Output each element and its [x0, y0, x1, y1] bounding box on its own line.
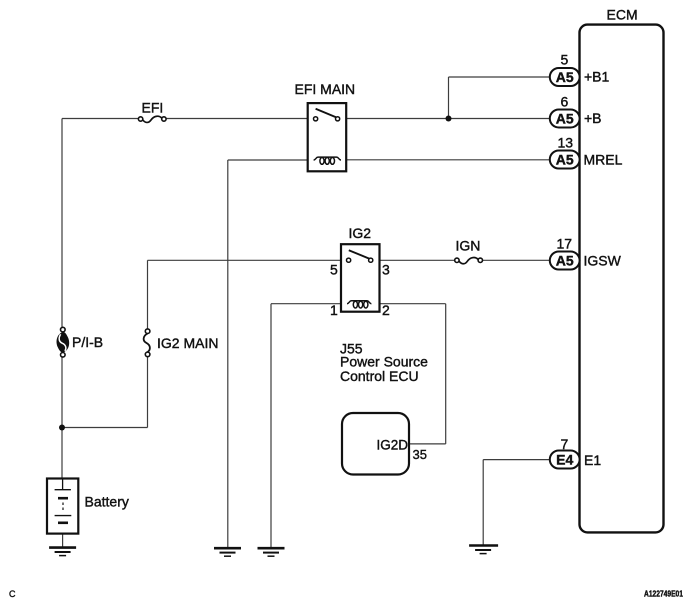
svg-text:ECM: ECM: [607, 7, 638, 23]
wire IG2 relay pin 2 down to IG2D: [445, 304, 447, 444]
junction node battery positive bus: [59, 425, 65, 431]
ECM box: [580, 25, 664, 533]
svg-text:C: C: [9, 589, 16, 599]
fuse IGN: [455, 258, 483, 264]
svg-text:E4: E4: [556, 452, 573, 468]
wire IG2 MAIN to IG2 relay pin 5: [148, 259, 347, 261]
svg-text:Control ECU: Control ECU: [340, 368, 419, 384]
ground (EFI MAIN relay coil): [214, 548, 241, 556]
wire IGN fuse to IGSW pin: [482, 259, 549, 261]
wire IG2 relay pin 1 to ground, vertical: [270, 304, 272, 548]
ground (E1): [469, 546, 498, 554]
svg-text:17: 17: [557, 236, 573, 252]
connector IG2D (J55 Power Source Control ECU): [342, 413, 409, 475]
svg-text:A5: A5: [556, 69, 574, 85]
wire IG2 MAIN fuse upper vertical: [147, 260, 149, 329]
svg-text:IG2D: IG2D: [376, 438, 408, 453]
svg-text:Battery: Battery: [85, 494, 129, 510]
wire IG2 MAIN fuse lower vertical: [147, 357, 149, 428]
connector A5 pin 17 (IGSW): [550, 252, 580, 270]
wire battery node to IG2 MAIN branch: [62, 427, 148, 429]
wire EFI fuse to EFI MAIN relay pin: [166, 118, 313, 120]
fuse IG2 MAIN: [144, 329, 150, 357]
svg-text:A5: A5: [556, 253, 574, 269]
wire E1 pin horizontal: [483, 459, 550, 461]
wire E1 to ground vertical: [482, 460, 484, 546]
relay EFI MAIN: [308, 103, 347, 171]
wire P/I-B link to battery: [61, 357, 63, 478]
svg-text:2: 2: [382, 302, 390, 318]
svg-text:3: 3: [382, 262, 390, 278]
label J55 Power Source Control ECU: [340, 341, 428, 385]
ground (battery): [49, 548, 76, 556]
svg-text:A122749E01: A122749E01: [644, 590, 683, 599]
wire +B1 branch horizontal: [449, 76, 550, 78]
wire IG2 relay pin 1 to ground, horizontal: [271, 303, 348, 305]
wire into IG2D pin 35: [409, 443, 446, 445]
connector A5 pin 6 (+B): [550, 110, 580, 128]
svg-text:IG2: IG2: [349, 225, 372, 241]
svg-text:13: 13: [558, 135, 574, 151]
svg-text:35: 35: [413, 447, 427, 462]
svg-text:IG2 MAIN: IG2 MAIN: [157, 335, 218, 351]
junction node +B/+B1: [446, 116, 452, 122]
svg-text:IGN: IGN: [456, 238, 481, 254]
battery: [47, 479, 78, 534]
wire IG2 relay pin 3 to IGN fuse: [375, 259, 455, 261]
svg-text:IGSW: IGSW: [584, 253, 622, 269]
svg-text:5: 5: [561, 52, 569, 68]
svg-text:A5: A5: [556, 111, 574, 127]
connector A5 pin 5 (+B1): [550, 68, 580, 86]
wire +B1 branch vertical: [448, 77, 450, 119]
wire EFI top left segment (battery feed to EFI fuse): [62, 118, 138, 120]
wire left vertical drop to P/I-B link: [61, 119, 63, 328]
svg-text:+B: +B: [584, 110, 602, 126]
svg-text:5: 5: [330, 262, 338, 278]
fusible link P/I-B: [57, 327, 70, 357]
svg-text:E1: E1: [584, 452, 601, 468]
relay IG2: [341, 244, 380, 312]
fuse EFI: [138, 116, 166, 122]
svg-text:P/I-B: P/I-B: [72, 334, 103, 350]
connector E4 pin 7 (E1): [550, 451, 580, 469]
wire IG2 relay pin 2 horizontal: [372, 303, 446, 305]
connector A5 pin 13 (MREL): [550, 151, 580, 169]
svg-text:EFI MAIN: EFI MAIN: [295, 81, 356, 97]
svg-text:+B1: +B1: [584, 69, 610, 85]
svg-text:EFI: EFI: [142, 100, 164, 116]
svg-text:6: 6: [561, 94, 569, 110]
wire EFI MAIN relay switch to +B pin: [340, 118, 550, 120]
svg-text:MREL: MREL: [584, 152, 623, 168]
svg-text:7: 7: [561, 436, 569, 452]
svg-text:A5: A5: [556, 152, 574, 168]
wire EFI MAIN relay coil to MREL pin: [341, 159, 550, 161]
svg-text:1: 1: [330, 302, 338, 318]
wire EFI MAIN relay coil to ground, horizontal: [228, 159, 314, 161]
wire battery negative to ground: [62, 524, 64, 548]
ground (IG2 relay coil): [258, 548, 285, 556]
wire EFI MAIN relay coil to ground, vertical: [227, 160, 229, 548]
